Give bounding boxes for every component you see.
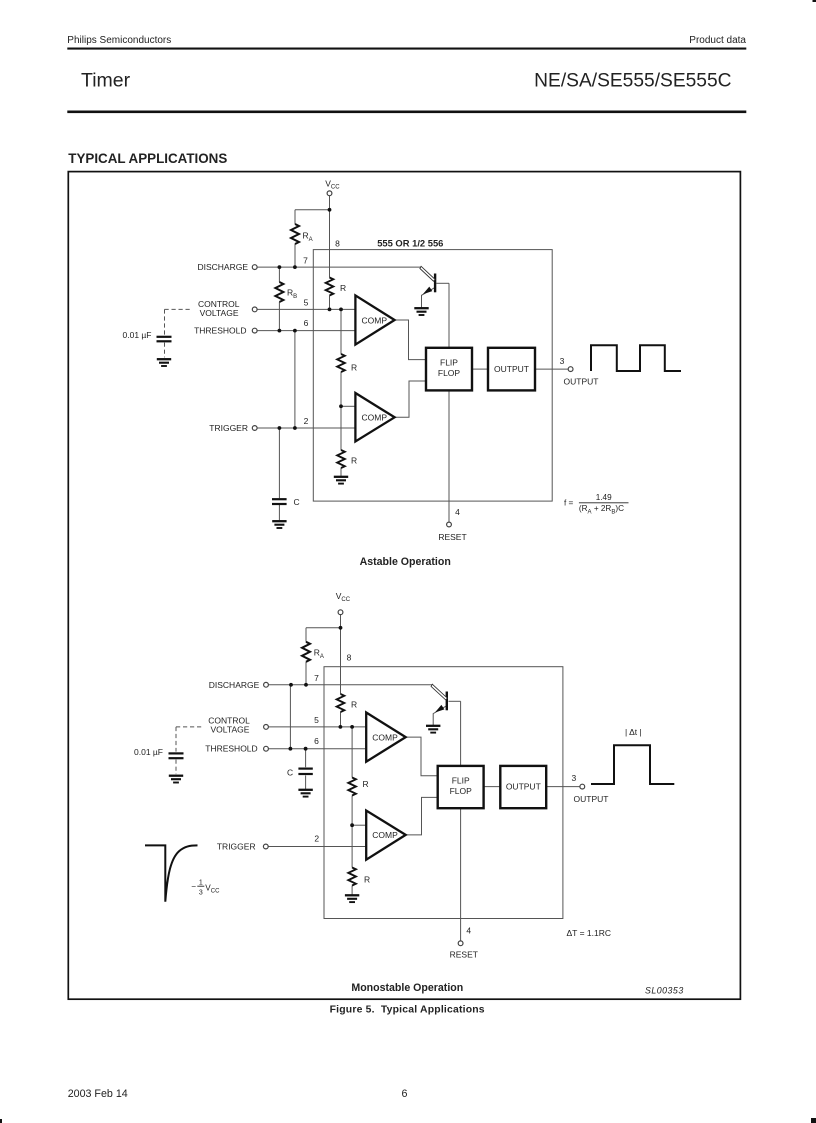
svg-text:TYPICAL APPLICATIONS: TYPICAL APPLICATIONS [68,151,227,166]
svg-text:3: 3 [560,356,565,366]
svg-text:R: R [363,779,369,789]
svg-text:THRESHOLD: THRESHOLD [194,326,246,336]
svg-text:R: R [340,283,346,293]
svg-text:THRESHOLD: THRESHOLD [205,744,257,754]
svg-text:TRIGGER: TRIGGER [217,842,256,852]
svg-text:C: C [287,767,293,777]
svg-text:RESET: RESET [450,949,478,959]
svg-text:C: C [294,497,300,507]
svg-text:ΔT = 1.1RC: ΔT = 1.1RC [567,928,612,938]
svg-text:COMP: COMP [362,413,388,423]
svg-text:NE/SA/SE555/SE555C: NE/SA/SE555/SE555C [534,71,731,92]
svg-text:Figure 5. Typical Application: Figure 5. Typical Applications [330,1005,485,1016]
svg-text:f =: f = [564,499,574,508]
svg-text:2: 2 [314,834,319,844]
svg-text:Philips Semiconductors: Philips Semiconductors [67,35,171,46]
svg-text:FLOP: FLOP [438,368,461,378]
svg-text:6: 6 [314,736,319,746]
svg-text:FLOP: FLOP [450,786,473,796]
svg-text:OUTPUT: OUTPUT [506,782,541,792]
svg-text:−: − [191,882,196,891]
svg-text:3: 3 [572,773,577,783]
svg-text:R: R [364,875,370,885]
svg-text:SL00353: SL00353 [645,986,684,996]
svg-text:2: 2 [304,416,309,426]
svg-text:Monostable Operation: Monostable Operation [351,982,463,994]
svg-text:1.49: 1.49 [596,493,612,502]
svg-text:COMP: COMP [362,315,388,325]
svg-text:6: 6 [402,1088,408,1100]
svg-text:OUTPUT: OUTPUT [564,376,599,386]
svg-text:1: 1 [199,880,203,887]
svg-text:8: 8 [347,653,352,663]
svg-text:0.01 µF: 0.01 µF [134,747,163,757]
svg-text:7: 7 [314,673,319,683]
svg-text:5: 5 [314,715,319,725]
svg-text:VOLTAGE: VOLTAGE [200,308,239,318]
svg-text:OUTPUT: OUTPUT [494,364,529,374]
svg-text:Timer: Timer [81,70,131,92]
svg-text:2003 Feb 14: 2003 Feb 14 [68,1088,128,1100]
svg-text:DISCHARGE: DISCHARGE [209,680,260,690]
svg-text:4: 4 [455,507,460,517]
svg-text:VOLTAGE: VOLTAGE [211,725,250,735]
svg-text:555 OR 1/2 556: 555 OR 1/2 556 [377,238,443,249]
svg-text:FLIP: FLIP [440,358,458,368]
svg-text:| Δt |: | Δt | [625,727,642,737]
svg-text:0.01 µF: 0.01 µF [123,330,152,340]
svg-text:COMP: COMP [372,732,398,742]
svg-text:RESET: RESET [438,532,466,542]
svg-text:Product data: Product data [689,35,746,46]
svg-text:R: R [351,700,357,710]
svg-text:7: 7 [303,256,308,266]
svg-text:TRIGGER: TRIGGER [209,423,248,433]
svg-text:4: 4 [466,925,471,935]
svg-text:Astable Operation: Astable Operation [360,556,451,568]
svg-text:R: R [351,363,357,373]
svg-text:OUTPUT: OUTPUT [574,794,609,804]
svg-text:3: 3 [199,889,203,896]
svg-text:DISCHARGE: DISCHARGE [197,262,248,272]
svg-text:COMP: COMP [372,830,398,840]
svg-text:R: R [351,456,357,466]
svg-text:FLIP: FLIP [452,775,470,785]
svg-text:5: 5 [304,298,309,308]
svg-text:8: 8 [335,239,340,249]
svg-text:6: 6 [304,318,309,328]
